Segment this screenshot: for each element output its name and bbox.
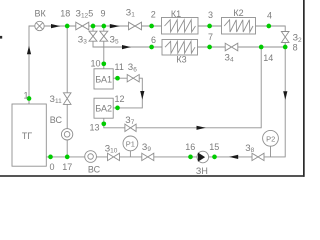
tank BA1 (94, 69, 113, 89)
node 9 (100, 9, 106, 29)
flow arrow on second line to node 6 (122, 45, 131, 49)
svg-text:К3: К3 (176, 55, 186, 65)
wire between K1 and K2 (198, 25, 222, 27)
pressure gauge P1 (123, 136, 138, 151)
flow arrow left on bottom line (229, 155, 238, 159)
air valve VK (35, 8, 47, 30)
svg-text:8: 8 (293, 42, 298, 52)
svg-text:БА2: БА2 (95, 104, 112, 114)
valve Z9 (142, 142, 154, 161)
flow arrow right on Z7 line (197, 126, 206, 130)
wire node 5 stub to valve Z3 (92, 26, 94, 31)
svg-text:9: 9 (100, 9, 105, 19)
svg-text:7: 7 (208, 32, 213, 42)
svg-text:14: 14 (263, 53, 273, 63)
node 6 (149, 35, 156, 50)
wire gauge P2 stub (270, 146, 272, 157)
wire second line K3 to node 8 (198, 46, 286, 48)
node 16 (185, 142, 195, 159)
flow arrow VK to node 18 (51, 24, 60, 28)
svg-text:ТГ: ТГ (22, 131, 32, 141)
flow arrow node 9 to Z1 (110, 24, 120, 28)
node 8 (283, 42, 298, 52)
svg-text:1: 1 (24, 90, 29, 100)
wire node 18 riser down to valve Z11 (66, 26, 68, 93)
pump ZN (196, 151, 209, 176)
svg-text:6: 6 (151, 35, 156, 45)
svg-text:Р1: Р1 (126, 139, 135, 148)
valve Z2 (281, 32, 302, 44)
wire VK left branch down to TG top (29, 26, 35, 104)
wire BA2 bottom through node 13 to Z7 line (104, 47, 261, 128)
node 11 (115, 62, 124, 80)
valve Z8 (245, 143, 264, 161)
svg-text:5: 5 (88, 9, 93, 19)
valve Z10 (105, 143, 120, 160)
svg-text:10: 10 (91, 58, 101, 68)
svg-text:12: 12 (115, 94, 125, 104)
wire top supply line y=26 from VK to K1 (44, 25, 161, 27)
svg-text:17: 17 (62, 162, 72, 172)
heater K2 (222, 8, 256, 34)
wire Z11 to flow meter VS1 (66, 104, 68, 156)
node 1 (24, 90, 32, 101)
boiler TG (12, 104, 46, 166)
wire gauge P1 stub (129, 151, 131, 157)
node 10 (91, 58, 107, 68)
valve Z5 (100, 31, 119, 45)
wire node 11 through Z6 down to node 12 (113, 78, 142, 108)
heater K3 (162, 40, 198, 65)
node 12 (115, 94, 125, 110)
wire from Z2 to node 8 (284, 43, 286, 48)
svg-text:15: 15 (209, 142, 219, 152)
valve Z6 (127, 62, 139, 82)
svg-text:3: 3 (208, 10, 213, 20)
node 2 (149, 10, 156, 29)
node 5 (88, 9, 95, 29)
node 13 (90, 121, 107, 132)
node 4 (266, 11, 272, 29)
svg-text:ЗН: ЗН (196, 166, 208, 176)
wire Z3 down and second line y=47 to K3 (93, 41, 162, 47)
svg-text:ВС: ВС (50, 115, 63, 125)
valve Z4 (225, 43, 238, 63)
tank BA2 (94, 98, 113, 118)
svg-text:БА1: БА1 (95, 74, 112, 84)
frame border bottom (0, 175, 305, 177)
svg-text:11: 11 (115, 62, 124, 72)
node 17 (62, 155, 72, 173)
svg-text:ВС: ВС (88, 165, 101, 175)
flow arrow up on left riser (27, 46, 31, 55)
node 3 (207, 10, 213, 29)
valve Z3 (78, 31, 97, 45)
wire bottom return line y=156.9 (46, 47, 285, 157)
svg-text:К1: К1 (171, 9, 181, 19)
svg-text:18: 18 (60, 8, 70, 18)
frame border right (303, 0, 305, 177)
flow arrow down on node 8 riser (283, 91, 287, 100)
svg-text:16: 16 (185, 142, 195, 152)
svg-text:Р2: Р2 (266, 135, 275, 144)
flow meter VS2 (85, 151, 101, 175)
frame border left dash (0, 36, 2, 39)
valve Z1 (126, 8, 142, 30)
valve Z7 (125, 115, 136, 132)
svg-text:4: 4 (267, 11, 272, 21)
wire node 9 stub to valve Z5 (103, 26, 105, 31)
svg-text:ВК: ВК (35, 8, 47, 18)
node 0 (48, 155, 54, 173)
node 14 (259, 45, 273, 63)
node 15 (209, 142, 219, 159)
svg-text:К2: К2 (233, 8, 243, 18)
valve Z12 (76, 9, 89, 30)
svg-text:0: 0 (49, 162, 54, 172)
valve Z11 (50, 93, 72, 105)
flow meter VS1 (50, 115, 73, 140)
pressure gauge P2 (263, 130, 279, 146)
svg-text:2: 2 (151, 10, 156, 20)
node 18 (60, 8, 70, 28)
heater K1 (162, 9, 199, 34)
flow arrow down on Z6 riser (140, 91, 144, 100)
node 7 (207, 32, 213, 49)
wire from K2 to node 4 and corner down to valve Z2 (256, 26, 286, 32)
svg-text:13: 13 (90, 122, 100, 132)
wire Z5 down through junction to BA1 top (103, 41, 105, 69)
